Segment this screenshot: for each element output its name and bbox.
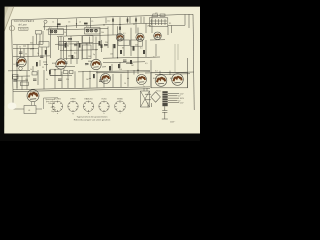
socket S1 ECH81 base view xyxy=(52,101,62,111)
title block xyxy=(14,19,35,31)
tube V9 electrodes xyxy=(117,36,122,40)
svg-text:1k: 1k xyxy=(86,43,88,45)
svg-text:0,1: 0,1 xyxy=(97,73,100,75)
tube V1 electrodes xyxy=(18,60,25,65)
tube V9 FM tuner triode envelope xyxy=(116,34,124,42)
svg-text:0,1: 0,1 xyxy=(49,27,52,29)
svg-text:EL84: EL84 xyxy=(102,99,108,101)
IF trimmer capacitors xyxy=(51,30,97,32)
svg-text:50: 50 xyxy=(106,79,108,81)
power transformer T1 winding stack xyxy=(162,91,167,106)
svg-text:ECH81: ECH81 xyxy=(54,99,62,101)
wires: drops to chassis bus xyxy=(16,76,18,90)
socket S4 EL84 base view xyxy=(99,101,109,111)
svg-text:C3: C3 xyxy=(68,21,70,23)
capacitors (parallel plate pairs) xyxy=(14,38,127,81)
svg-text:0,5: 0,5 xyxy=(74,53,77,55)
svg-text:5n: 5n xyxy=(63,70,65,72)
mains fuse and plug wires xyxy=(164,106,166,110)
right transformer labels xyxy=(170,93,185,123)
svg-text:de Luxe: de Luxe xyxy=(18,24,27,27)
socket S3 EABC80 base view xyxy=(83,101,93,111)
svg-text:6,3: 6,3 xyxy=(155,71,158,73)
tube V1 ECH81 mixer envelope xyxy=(17,57,27,67)
socket S5 EM80 base view xyxy=(115,101,126,112)
wires: right section xyxy=(151,24,153,34)
pilot lamp xyxy=(19,67,23,71)
tube V11 FM tuner triode envelope xyxy=(154,32,162,40)
svg-text:100: 100 xyxy=(88,56,91,58)
tube V10 electrodes xyxy=(137,35,142,39)
svg-text:NOVOSUPER 6: NOVOSUPER 6 xyxy=(14,19,35,23)
svg-text:0,1: 0,1 xyxy=(86,26,89,28)
wires: left column below title xyxy=(13,43,43,46)
svg-text:EABC80: EABC80 xyxy=(85,98,94,101)
band switch block S10 xyxy=(149,18,168,27)
svg-text:0,1: 0,1 xyxy=(153,57,156,59)
wire bus AVC rail xyxy=(46,29,108,30)
frame border xyxy=(12,14,194,20)
tube V5 electrodes xyxy=(138,77,145,82)
tubes: circles with brown electrodes xyxy=(17,32,184,102)
tube V6 electrodes xyxy=(157,78,165,84)
loudspeaker LS box xyxy=(24,106,36,114)
svg-text:EF89: EF89 xyxy=(71,99,77,101)
tube V2 electrodes xyxy=(58,61,65,66)
wires: horizontal mid runs xyxy=(55,42,100,45)
chassis ground bus double line xyxy=(13,89,150,92)
socket S5 pins xyxy=(115,101,125,112)
svg-text:50k: 50k xyxy=(135,45,138,47)
tube V8 electrodes xyxy=(29,93,37,99)
svg-text:1n: 1n xyxy=(37,53,39,55)
wire junction dots xyxy=(16,23,138,79)
paper background xyxy=(0,0,200,141)
svg-text:80: 80 xyxy=(67,45,69,47)
svg-text:20: 20 xyxy=(19,47,21,49)
svg-text:5p: 5p xyxy=(93,54,95,56)
svg-text:0,1: 0,1 xyxy=(140,48,143,50)
tube V4 EM80 tuning eye envelope xyxy=(101,74,111,84)
svg-text:250: 250 xyxy=(66,79,69,81)
svg-text:25: 25 xyxy=(42,67,44,69)
IF transformer cans F1 F2 and coil boxes xyxy=(49,29,64,35)
white oval blank xyxy=(8,103,17,110)
right power box xyxy=(151,73,188,88)
svg-text:C12: C12 xyxy=(107,21,110,23)
socket S4 pins xyxy=(99,101,109,112)
svg-text:1k: 1k xyxy=(30,69,32,71)
svg-text:10k: 10k xyxy=(101,32,104,34)
svg-text:0,5: 0,5 xyxy=(145,63,148,65)
svg-text:300: 300 xyxy=(30,43,33,45)
svg-text:ECH81: ECH81 xyxy=(14,64,20,66)
captions below sockets xyxy=(74,116,111,122)
svg-text:0,1: 0,1 xyxy=(73,56,76,58)
resistors (filled bars) xyxy=(16,18,145,85)
tube labels above sockets xyxy=(54,98,123,115)
svg-text:Netztr.: Netztr. xyxy=(156,90,162,93)
svg-text:UKW: UKW xyxy=(147,26,151,28)
svg-text:5k: 5k xyxy=(46,79,48,81)
svg-text:50: 50 xyxy=(25,54,27,56)
socket S2 pins xyxy=(68,101,78,112)
svg-text:EF89: EF89 xyxy=(52,63,56,65)
svg-text:8k: 8k xyxy=(122,48,124,50)
output transformer T2 hatched core xyxy=(141,91,150,107)
misc small texts scattered xyxy=(14,12,175,112)
corner shadow top-left xyxy=(4,6,14,31)
svg-text:S1: S1 xyxy=(169,23,171,25)
svg-text:EM80: EM80 xyxy=(117,99,123,101)
svg-text:Signal: Signal xyxy=(51,111,56,113)
tube V3 EABC80 detector envelope xyxy=(91,59,101,69)
wire bus B+ rail xyxy=(43,23,152,27)
black border bands xyxy=(0,0,200,5)
wires: top section drops xyxy=(44,23,46,30)
svg-text:0,1: 0,1 xyxy=(123,33,126,35)
tube V4 electrodes xyxy=(102,76,109,81)
socket S3 pins xyxy=(83,101,93,112)
tube V7 electrodes xyxy=(174,77,182,83)
tube V6 EL84 output envelope xyxy=(155,75,167,87)
svg-text:10k: 10k xyxy=(110,54,113,56)
svg-text:a b: a b xyxy=(155,12,158,14)
left bottom text block xyxy=(45,99,56,113)
tube V8 EL84 power amp envelope xyxy=(27,90,39,102)
tube V5 driver envelope xyxy=(137,75,147,85)
wires: mid vertical runs xyxy=(60,36,62,58)
tube V3 electrodes xyxy=(93,62,100,67)
svg-text:EL84: EL84 xyxy=(153,78,157,80)
tube V10 FM tuner triode envelope xyxy=(136,33,144,41)
svg-text:C5: C5 xyxy=(91,21,93,23)
rectifier bridge GR1 diamond xyxy=(151,92,161,102)
svg-text:Chassis: Chassis xyxy=(48,103,54,105)
svg-text:10: 10 xyxy=(124,83,126,85)
tube V11 electrodes xyxy=(155,34,160,38)
svg-text:EL84: EL84 xyxy=(170,78,174,80)
tube V7 EL84 output envelope xyxy=(172,74,184,86)
svg-text:2k: 2k xyxy=(68,42,70,44)
svg-text:25k: 25k xyxy=(105,42,108,44)
antenna terminal xyxy=(44,20,47,23)
svg-text:220V~: 220V~ xyxy=(170,121,175,123)
tube socket diagrams row xyxy=(52,101,125,112)
C stamp circle xyxy=(9,26,14,31)
svg-text:Tonfunk: Tonfunk xyxy=(20,29,28,31)
svg-text:5k: 5k xyxy=(64,32,66,34)
socket S2 EF89 base view xyxy=(68,101,78,111)
svg-text:EABC: EABC xyxy=(88,60,94,63)
svg-text:C1: C1 xyxy=(52,22,54,24)
svg-text:L5: L5 xyxy=(79,21,81,23)
svg-text:100: 100 xyxy=(25,79,28,81)
svg-text:250: 250 xyxy=(119,69,122,71)
svg-text:Röhrenfassungen von unten gese: Röhrenfassungen von unten gesehen xyxy=(74,119,111,122)
wire bus heater rail xyxy=(57,35,122,37)
crease line xyxy=(4,7,13,31)
transformer T1 secondary tap wires xyxy=(168,93,179,95)
tube V2 EF89 IF amp envelope xyxy=(56,59,66,69)
svg-text:Typenzeichen der gezeichneten: Typenzeichen der gezeichneten xyxy=(77,116,109,119)
